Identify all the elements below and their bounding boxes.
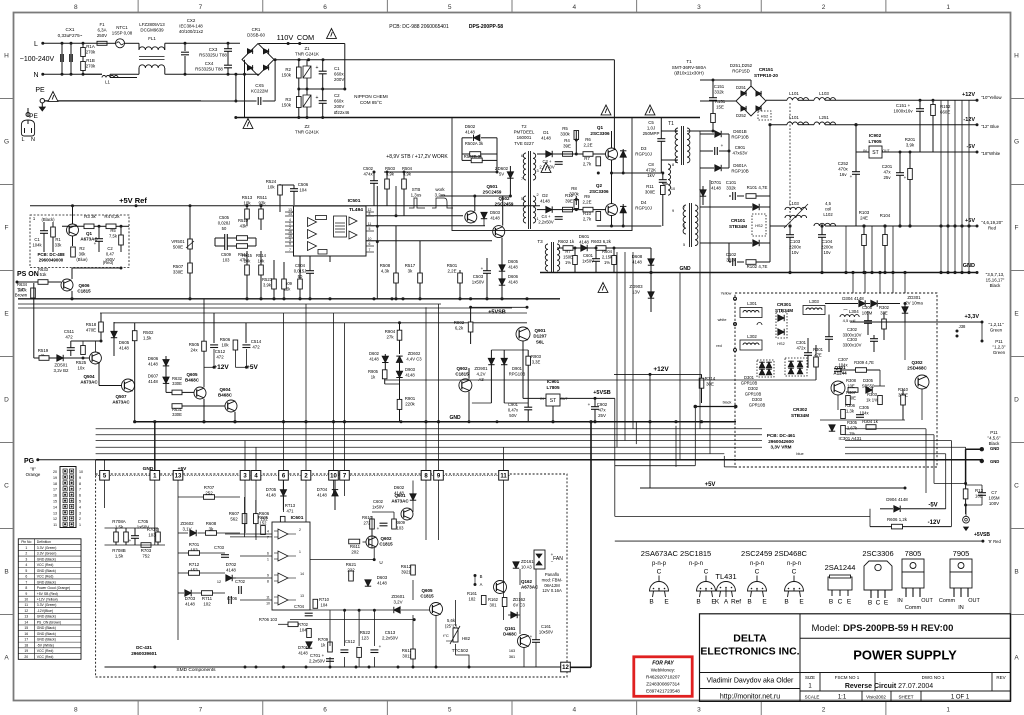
svg-text:15,16,17": 15,16,17"	[986, 278, 1005, 283]
svg-text:300E: 300E	[645, 190, 655, 195]
red FOR PAY info box	[634, 657, 692, 697]
svg-text:D3: D3	[641, 146, 647, 151]
svg-text:D3SB-60: D3SB-60	[247, 33, 265, 38]
svg-text:C505: C505	[219, 215, 230, 220]
wire vrm internals	[385, 379, 816, 381]
svg-text:4148: 4148	[508, 279, 518, 284]
svg-text:ZD602: ZD602	[408, 351, 421, 356]
svg-text:Q301: Q301	[834, 365, 846, 370]
svg-text:1kV: 1kV	[647, 173, 655, 178]
svg-text:R606 1,2k: R606 1,2k	[887, 517, 908, 522]
svg-text:7805: 7805	[905, 549, 922, 558]
svg-text:13: 13	[300, 594, 304, 598]
svg-text:2: 2	[675, 160, 677, 164]
svg-text:RGP10J: RGP10J	[635, 206, 652, 211]
svg-text:7905: 7905	[953, 549, 970, 558]
svg-text:STB34M: STB34M	[729, 224, 747, 229]
svg-text:D903: D903	[405, 367, 416, 372]
svg-text:3300x10V: 3300x10V	[843, 342, 862, 347]
svg-text:R504: R504	[402, 166, 413, 171]
svg-text:L103: L103	[819, 91, 829, 96]
svg-text:U: U	[379, 560, 382, 565]
capacitor C1	[319, 70, 327, 72]
svg-text:C301: C301	[796, 340, 807, 345]
svg-text:DWG NO 1: DWG NO 1	[922, 675, 945, 680]
svg-text:2SC3306: 2SC3306	[862, 549, 893, 558]
svg-text:GND (Black): GND (Black)	[37, 632, 56, 636]
svg-text:+: +	[850, 174, 853, 179]
svg-text:J38: J38	[959, 324, 966, 329]
svg-text:ZD501: ZD501	[54, 363, 68, 368]
connector pad 5	[100, 471, 110, 481]
svg-text:103: 103	[223, 257, 231, 262]
svg-text:F: F	[1015, 225, 1019, 232]
svg-text:Q502: Q502	[498, 196, 510, 201]
svg-text:K: K	[715, 599, 720, 606]
svg-text:PE: PE	[35, 87, 45, 94]
svg-text:R606: R606	[259, 511, 270, 516]
svg-text:C: C	[1014, 483, 1019, 490]
svg-text:ST: ST	[872, 150, 878, 156]
svg-text:B: B	[649, 599, 653, 606]
svg-text:R7: R7	[584, 156, 590, 161]
svg-text:C702: C702	[235, 579, 246, 584]
svg-text:+5V: +5V	[246, 364, 258, 371]
svg-text:PCB: DC-488: PCB: DC-488	[37, 252, 65, 257]
svg-text:R306: R306	[845, 403, 856, 408]
svg-text:3: 3	[697, 4, 701, 11]
svg-text:Comm: Comm	[905, 605, 922, 611]
svg-text:E: E	[799, 599, 804, 606]
transformer T1 secondary	[683, 205, 686, 234]
connector P1 20-pin icon	[60, 467, 76, 528]
svg-text:5: 5	[683, 243, 685, 247]
svg-text:R462920710207: R462920710207	[646, 675, 680, 680]
svg-text:C: C	[755, 569, 760, 576]
svg-text:104: 104	[299, 188, 307, 193]
svg-text:R710: R710	[319, 597, 330, 602]
svg-text:3: 3	[683, 224, 685, 228]
transistor Q501	[465, 211, 477, 223]
svg-text:L7805: L7805	[546, 385, 559, 390]
svg-text:R1B: R1B	[86, 58, 95, 63]
svg-text:ST: ST	[550, 398, 556, 404]
svg-text:D608: D608	[632, 254, 643, 259]
svg-text:330k: 330k	[560, 132, 570, 137]
svg-text:Visio2002: Visio2002	[866, 694, 886, 699]
svg-text:D251: D251	[736, 85, 747, 90]
svg-text:R1A: R1A	[86, 44, 95, 49]
svg-text:+12V: +12V	[213, 364, 229, 371]
svg-text:+8,9V STB / +17,2V WORK: +8,9V STB / +17,2V WORK	[386, 154, 448, 160]
svg-text:Orange: Orange	[26, 472, 41, 477]
connector pad 6	[279, 471, 289, 481]
svg-text:R7: R7	[565, 249, 571, 254]
svg-text:R524: R524	[266, 179, 277, 184]
svg-text:R2: R2	[285, 67, 291, 72]
svg-text:n-p-n: n-p-n	[689, 561, 703, 567]
svg-text:12: 12	[217, 580, 221, 584]
svg-text:R6: R6	[585, 137, 591, 142]
rc pair 1	[224, 234, 226, 242]
svg-text:10: 10	[330, 474, 337, 480]
svg-text:39E: 39E	[565, 199, 573, 204]
fan sym	[963, 516, 970, 523]
svg-text:27k: 27k	[386, 335, 394, 340]
connector pad 10	[329, 471, 339, 481]
svg-text:150k: 150k	[281, 73, 291, 78]
svg-text:R703: R703	[141, 548, 152, 553]
svg-text:D704: D704	[317, 487, 328, 492]
svg-text:CR302: CR302	[793, 407, 808, 412]
svg-text:9: 9	[79, 476, 81, 480]
svg-text:VR501: VR501	[171, 239, 185, 244]
connector FAN	[534, 550, 545, 569]
svg-text:102: 102	[203, 602, 211, 607]
svg-text:1: 1	[79, 523, 81, 527]
svg-text:+: +	[530, 634, 533, 639]
wire lm339 out row2	[290, 619, 414, 621]
svg-text:Panaflo: Panaflo	[545, 572, 560, 577]
svg-text:1,3us: 1,3us	[411, 193, 423, 198]
svg-text:+12V: +12V	[962, 92, 975, 98]
svg-text:2,2x50V: 2,2x50V	[382, 636, 398, 641]
svg-text:4: 4	[267, 530, 269, 534]
svg-text:1,5k: 1,5k	[143, 336, 152, 341]
svg-text:24E: 24E	[860, 216, 868, 221]
svg-text:51k: 51k	[40, 272, 48, 277]
svg-text:104: 104	[300, 627, 308, 632]
svg-text:93k: 93k	[258, 201, 266, 206]
svg-text:6: 6	[323, 707, 327, 714]
svg-text:4: 4	[573, 4, 577, 11]
pinout 2SA1244 TO-126	[828, 577, 852, 590]
svg-text:GND (Black): GND (Black)	[37, 615, 56, 619]
svg-text:R502: R502	[143, 330, 154, 335]
svg-text:R101 4,7E: R101 4,7E	[747, 185, 768, 190]
wire drops into VRM	[852, 273, 854, 294]
svg-text:ZD601: ZD601	[391, 594, 405, 599]
svg-text:ZD901: ZD901	[474, 366, 488, 371]
wire bus left verticals	[95, 460, 97, 475]
svg-text:6: 6	[79, 494, 81, 498]
svg-text:HS2: HS2	[761, 115, 768, 119]
svg-text:2SD468C: 2SD468C	[907, 366, 927, 371]
svg-text:PE: PE	[29, 113, 38, 120]
svg-text:GPR10B: GPR10B	[741, 380, 758, 385]
svg-text:+: +	[129, 538, 132, 543]
svg-text:C703: C703	[214, 545, 225, 550]
wire primary negative bus	[236, 117, 700, 119]
svg-text:B468C: B468C	[218, 393, 233, 398]
svg-text:HS2: HS2	[777, 342, 784, 346]
svg-text:R513: R513	[242, 195, 253, 200]
svg-text:C307: C307	[838, 357, 849, 362]
svg-text:R511: R511	[257, 195, 268, 200]
svg-text:47x: 47x	[598, 408, 606, 413]
svg-text:9: 9	[25, 592, 27, 596]
wire Q501 collector	[474, 196, 476, 211]
svg-text:8: 8	[25, 586, 27, 590]
wire bottom bus smd	[105, 666, 571, 668]
svg-text:+5V Ref: +5V Ref	[119, 196, 147, 205]
svg-text:D701: D701	[298, 645, 309, 650]
svg-text:R301: R301	[813, 347, 824, 352]
connector pad 3	[240, 471, 250, 481]
svg-text:Q602: Q602	[380, 536, 392, 541]
svg-text:R902: R902	[454, 320, 465, 325]
svg-text:CX1: CX1	[66, 27, 75, 32]
svg-text:C503: C503	[473, 274, 484, 279]
svg-text:mod: FBM-: mod: FBM-	[542, 577, 563, 582]
svg-text:C1: C1	[334, 66, 340, 71]
svg-text:L: L	[21, 137, 24, 143]
IC501 pin stubs right	[366, 211, 374, 213]
svg-text:+: +	[379, 644, 382, 649]
svg-text:C502: C502	[363, 166, 374, 171]
svg-text:2,67k: 2,67k	[847, 425, 858, 430]
svg-text:7: 7	[79, 488, 81, 492]
svg-text:E: E	[4, 311, 9, 318]
svg-text:C1815: C1815	[420, 594, 434, 599]
svg-text:7: 7	[683, 206, 685, 210]
svg-text:R602 1k: R602 1k	[558, 239, 575, 244]
svg-text:R9: R9	[584, 194, 590, 199]
svg-text:103: 103	[397, 525, 405, 530]
IC501 internal comparator 1	[308, 218, 317, 227]
svg-text:4148: 4148	[298, 650, 308, 655]
svg-text:Q605: Q605	[421, 588, 433, 593]
svg-text:R10: R10	[583, 211, 592, 216]
svg-text:3k: 3k	[408, 269, 413, 274]
title block outline	[700, 614, 1011, 702]
resistor R1B	[81, 62, 86, 71]
IC501 internal ref rect	[316, 216, 327, 220]
svg-text:C: C	[792, 569, 797, 576]
svg-text:ELECTRONICS INC.: ELECTRONICS INC.	[700, 646, 799, 658]
pinout 2SC3306 TO-3P	[864, 561, 892, 590]
wire q cluster	[165, 356, 167, 360]
svg-text:4148: 4148	[266, 493, 276, 498]
svg-text:470x: 470x	[838, 167, 848, 172]
svg-text:TVE 0227: TVE 0227	[514, 141, 534, 146]
svg-text:B: B	[784, 599, 788, 606]
svg-text:10v: 10v	[791, 250, 799, 255]
svg-text:Q161: Q161	[505, 626, 516, 631]
IC501 internal flip-flop	[334, 216, 347, 237]
svg-text:R161: R161	[467, 591, 478, 596]
svg-text:5: 5	[369, 227, 371, 231]
svg-text:D2: D2	[542, 193, 548, 198]
svg-text:VCC (Red): VCC (Red)	[37, 649, 54, 653]
svg-text:"4,6,19,20": "4,6,19,20"	[981, 220, 1003, 225]
svg-text:1k: 1k	[321, 643, 326, 648]
svg-text:STB34M: STB34M	[775, 308, 793, 313]
transformer T1 aux winding	[668, 164, 671, 195]
svg-text:4148: 4148	[579, 240, 589, 245]
svg-text:4148: 4148	[490, 215, 500, 220]
svg-text:10: 10	[671, 187, 675, 191]
svg-text:40/100/21x2: 40/100/21x2	[179, 29, 204, 34]
svg-text:E897421723548: E897421723548	[646, 689, 680, 694]
connector pad 7	[340, 471, 350, 481]
svg-text:3: 3	[536, 169, 538, 173]
thermistor TTC502	[453, 628, 458, 642]
svg-text:3,2us: 3,2us	[435, 193, 447, 198]
wire GND heavy primary	[540, 272, 977, 274]
svg-text:H: H	[1014, 53, 1019, 60]
svg-text:L101: L101	[789, 115, 799, 120]
svg-text:2,2x50V: 2,2x50V	[538, 219, 554, 224]
svg-text:9: 9	[672, 209, 674, 213]
connector pad 8	[421, 471, 431, 481]
svg-text:C151 +: C151 +	[896, 103, 911, 108]
svg-text:4148: 4148	[317, 493, 327, 498]
svg-text:2960049000: 2960049000	[39, 258, 64, 263]
svg-text:50V: 50V	[509, 413, 517, 418]
svg-text:TNR G241K: TNR G241K	[295, 130, 319, 135]
wire PG line	[38, 459, 96, 461]
IC501 internal comparator 2	[308, 230, 317, 239]
svg-text:4148: 4148	[369, 356, 379, 361]
svg-text:CX4: CX4	[205, 61, 214, 66]
svg-text:14: 14	[300, 572, 304, 576]
svg-text:16: 16	[24, 632, 28, 636]
svg-text:C701 +: C701 +	[310, 653, 325, 658]
wire r714 top	[650, 373, 702, 375]
svg-text:R901: R901	[405, 396, 416, 401]
wire 3.3 rail	[850, 321, 982, 323]
svg-text:1%: 1%	[604, 260, 610, 265]
svg-text:472x: 472x	[796, 345, 806, 350]
capacitor C705	[131, 535, 139, 537]
svg-text:2,7k: 2,7k	[583, 162, 592, 167]
svg-text:C1815: C1815	[77, 289, 91, 294]
svg-text:+5V: +5V	[178, 466, 187, 472]
svg-text:N: N	[33, 72, 38, 79]
svg-text:0,33uF275~: 0,33uF275~	[58, 33, 83, 38]
svg-text:R104: R104	[880, 213, 891, 218]
svg-text:270k: 270k	[86, 64, 96, 69]
svg-text:WebMoney:: WebMoney:	[651, 668, 675, 673]
svg-text:Reverse Circuit 27.07.2004: Reverse Circuit 27.07.2004	[845, 683, 933, 690]
svg-text:GND (Black): GND (Black)	[37, 638, 56, 642]
svg-text:D602: D602	[394, 485, 405, 490]
svg-text:105M: 105M	[862, 310, 873, 315]
svg-text:HS2: HS2	[755, 224, 762, 228]
svg-text:2200x: 2200x	[821, 245, 834, 250]
svg-text:red: red	[716, 344, 722, 348]
svg-text:2,7k: 2,7k	[583, 217, 592, 222]
svg-text:T1: T1	[668, 121, 674, 127]
svg-text:R519: R519	[38, 348, 49, 353]
svg-text:D702: D702	[226, 562, 237, 567]
IC601 comparator triangle 1	[278, 529, 288, 539]
svg-text:7: 7	[25, 580, 27, 584]
svg-text:C514: C514	[251, 339, 262, 344]
svg-text:R303: R303	[867, 392, 878, 397]
svg-text:C104: C104	[822, 239, 833, 244]
connector pad 1	[150, 471, 160, 481]
wire q601 area	[363, 541, 367, 543]
svg-text:t°C: t°C	[443, 633, 449, 638]
svg-text:VCC (Red): VCC (Red)	[37, 655, 54, 659]
svg-text:100V: 100V	[989, 501, 999, 506]
svg-text:R603 6,2k: R603 6,2k	[591, 239, 612, 244]
svg-text:R507: R507	[173, 264, 184, 269]
svg-text:FL1: FL1	[148, 36, 156, 41]
svg-text:08A12M: 08A12M	[544, 583, 560, 588]
svg-text:Q606: Q606	[78, 283, 90, 288]
svg-text:4148: 4148	[711, 186, 721, 191]
svg-text:3,3V VRM: 3,3V VRM	[771, 445, 792, 450]
svg-text:C252: C252	[838, 161, 849, 166]
svg-text:D606: D606	[508, 274, 519, 279]
svg-text:GND (Black): GND (Black)	[37, 569, 56, 573]
svg-text:2: 2	[25, 552, 27, 556]
svg-text:D705: D705	[266, 487, 277, 492]
svg-text:4148: 4148	[119, 346, 129, 351]
wire zd601 row	[310, 609, 393, 611]
svg-text:7: 7	[369, 248, 371, 252]
svg-text:L1: L1	[105, 80, 110, 85]
wire T3 bottom	[557, 272, 661, 274]
svg-text:C1815: C1815	[455, 372, 469, 377]
svg-text:D605: D605	[508, 259, 519, 264]
svg-text:11: 11	[266, 596, 270, 600]
svg-text:GND (Black): GND (Black)	[37, 557, 56, 561]
svg-text:7: 7	[289, 248, 291, 252]
svg-text:2960039601: 2960039601	[131, 651, 157, 656]
svg-text:A673AC: A673AC	[112, 400, 130, 405]
svg-text:Green: Green	[990, 328, 1003, 333]
svg-text:GPR10B: GPR10B	[745, 391, 762, 396]
svg-text:500E: 500E	[173, 245, 183, 250]
svg-text:200V: 200V	[334, 104, 344, 109]
wire stb node	[471, 306, 527, 308]
svg-text:8: 8	[74, 707, 78, 714]
svg-text:2SA673AC 2SC1815: 2SA673AC 2SC1815	[641, 549, 711, 558]
capacitor C2	[319, 100, 327, 102]
svg-text:A: A	[4, 655, 9, 662]
svg-text:blue: blue	[796, 452, 803, 456]
svg-text:C2: C2	[107, 246, 113, 251]
svg-text:+5V: +5V	[705, 482, 716, 488]
svg-text:5: 5	[79, 500, 81, 504]
svg-text:GND: GND	[990, 459, 999, 464]
svg-text:STB: STB	[412, 187, 421, 192]
connector pad 4	[251, 471, 261, 481]
svg-text:C151: C151	[714, 84, 725, 89]
svg-text:+: +	[481, 266, 484, 271]
wire L7905 in	[855, 151, 857, 153]
IC601 comparator triangle 2	[278, 551, 288, 561]
wire lm339 left links	[244, 497, 246, 514]
svg-text:L103: L103	[789, 201, 799, 206]
IC501 internal driver 2	[349, 231, 357, 239]
svg-text:D502: D502	[465, 124, 476, 129]
svg-text:6: 6	[521, 154, 523, 158]
wire 110V to switcher	[613, 60, 615, 150]
svg-text:CX5: CX5	[255, 83, 264, 88]
title block divider lines	[799, 614, 801, 702]
svg-text:GND (Black): GND (Black)	[37, 580, 56, 584]
svg-text:"8": "8"	[30, 467, 36, 472]
svg-text:+: +	[588, 402, 591, 407]
svg-text:+5VSB: +5VSB	[974, 532, 990, 538]
svg-text:C509: C509	[221, 252, 232, 257]
svg-text:123: 123	[361, 636, 369, 641]
